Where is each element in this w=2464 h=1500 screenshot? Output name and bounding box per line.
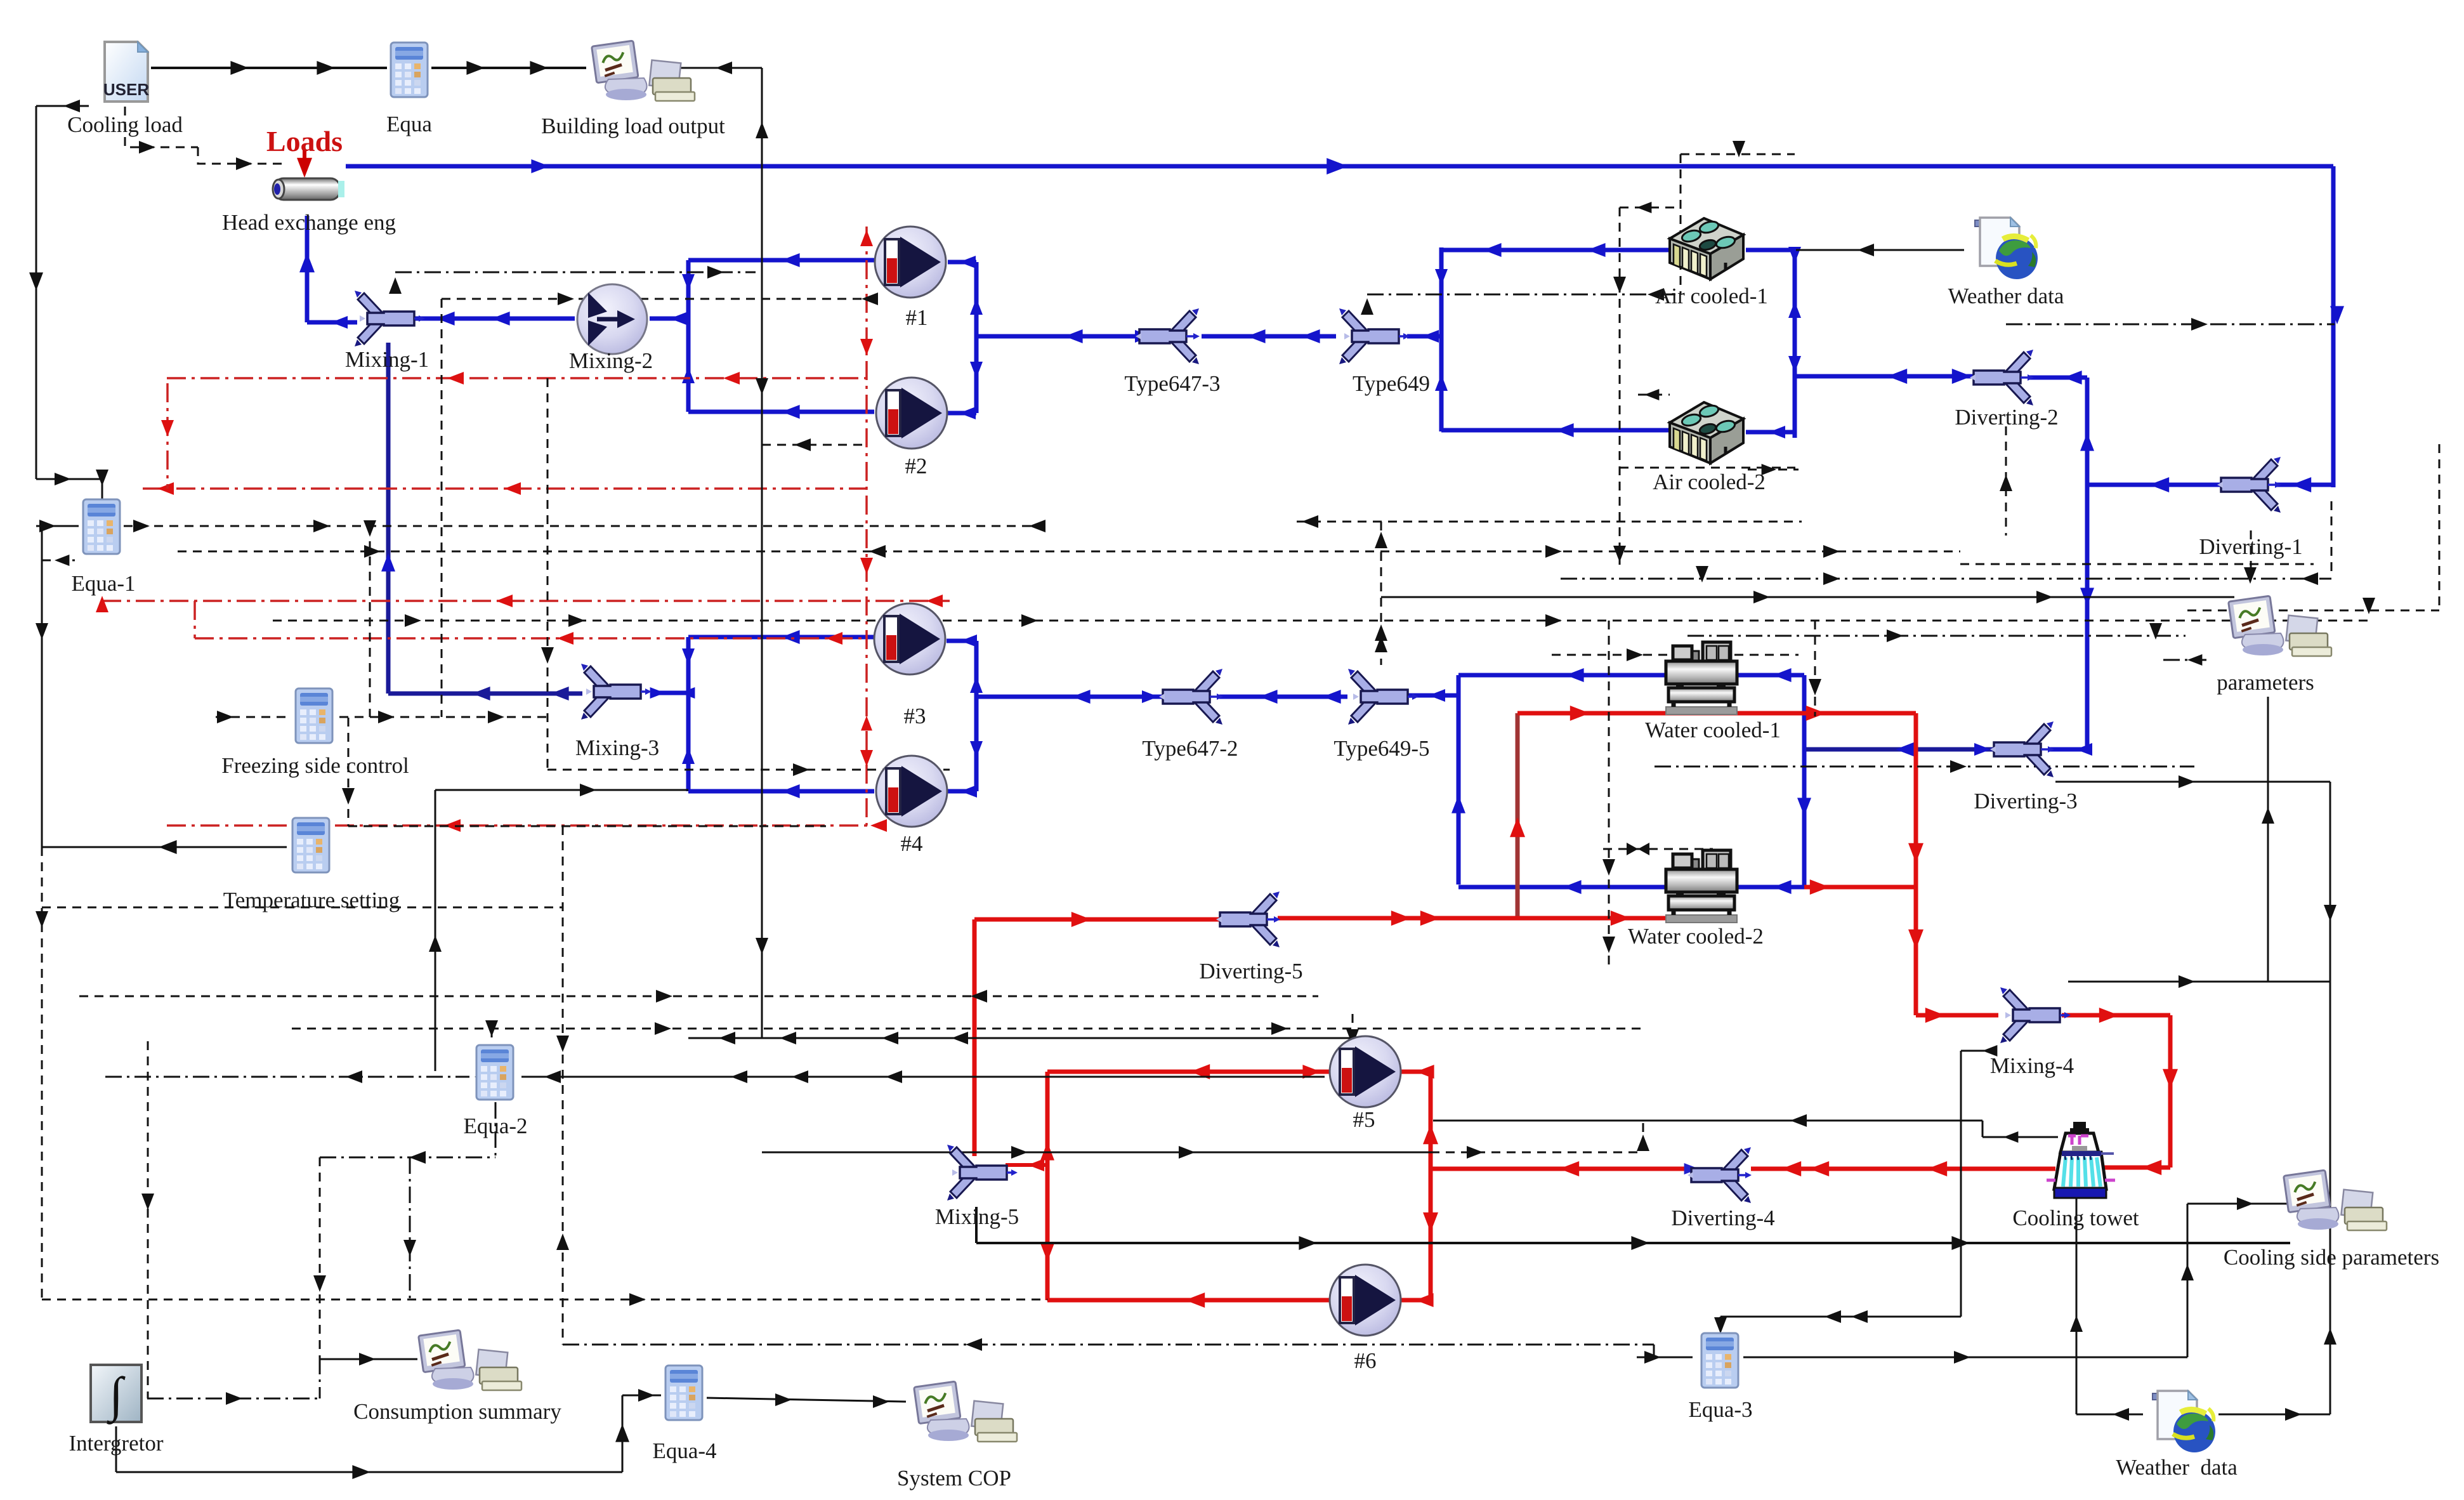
control: dash-dot Mixing-1 arm y429	[395, 272, 756, 273]
component: pump #2	[876, 378, 947, 449]
svg-text:Type649-5: Type649-5	[1334, 736, 1429, 761]
control: dashed vertical x504	[319, 1157, 321, 1358]
wire: suction riser x1085 upper (blue)	[686, 260, 691, 412]
wire: condenser supply from chillers (dark red riser x2392)	[1516, 713, 1520, 918]
wire: pump #4 suction run (blue)	[688, 789, 874, 794]
signal: tower fan hook	[1982, 1121, 1984, 1137]
signal: Mixing-4 top arm output	[2068, 981, 2330, 983]
svg-text:Type647-2: Type647-2	[1142, 736, 1238, 761]
component: Consumption summary (plotter)	[419, 1330, 521, 1390]
svg-text:Diverting-4: Diverting-4	[1671, 1206, 1774, 1230]
component: pump #3	[874, 603, 945, 674]
control: dash-dot row y912	[1561, 578, 2331, 580]
control: dashed y1032 mid	[1552, 654, 1799, 656]
wire: Type649 outlet stub (blue)	[1407, 334, 1441, 339]
component: Diverting-4 (diverter)	[1687, 1147, 1752, 1203]
svg-text:Diverting-5: Diverting-5	[1199, 959, 1302, 984]
component: Head exchange eng (pipe)	[273, 178, 344, 200]
signal: left rail top hook	[36, 105, 89, 107]
wire: pump #2 suction run (blue)	[688, 410, 874, 414]
control: dashed vertical x2536 lower	[1608, 621, 1610, 971]
wire: Diverting-5 header y1449 (red)	[974, 918, 1222, 922]
control: dashed WC valve stub with valve symbol	[1603, 848, 1713, 850]
control: dashed vertical x2861	[1814, 621, 1816, 716]
wire: condenser riser x3020 to Mixing-4 (red)	[1914, 713, 1918, 1015]
control: pump#5 top dashed stub	[1352, 1014, 1354, 1042]
svg-text:Temperature setting: Temperature setting	[223, 888, 400, 912]
signal: Equa to Building load output	[431, 67, 586, 69]
signal: Equa-4 to System COP	[707, 1398, 906, 1402]
svg-text:Air cooled-1: Air cooled-1	[1655, 284, 1768, 308]
wire: pump manifold riser x1539 lower (blue)	[974, 641, 979, 791]
wire: pump #6 right stub (red)	[1401, 1298, 1431, 1303]
svg-text:Water cooled-1: Water cooled-1	[1645, 718, 1781, 742]
control: dashed pump#6 bypass y1816-2590	[1431, 1152, 1643, 1154]
signal: Diverting-3 lower arm to right rail	[2055, 781, 2330, 783]
svg-text:Mixing-1: Mixing-1	[345, 347, 429, 372]
control: dashed vertical x863	[547, 378, 549, 770]
control: dashed Mixing-3 box bottom y1302	[348, 826, 826, 827]
wire: Mixing-1 to Mixing-2 run (blue)	[414, 317, 575, 321]
signal: Mixing-4 lower hook	[1961, 1050, 1991, 1052]
component: System COP (plotter)	[914, 1381, 1017, 1442]
component: Mixing-1 (tee valve)	[355, 291, 425, 346]
svg-text:#3: #3	[904, 704, 926, 728]
component: Diverting-2	[1970, 350, 2034, 405]
control: dashed hook at Equa-1 lower-left	[42, 560, 75, 562]
signal: weather data to air-cooled rail	[1796, 249, 1964, 251]
wire: right riser to Diverting-1 (blue)	[2331, 166, 2336, 487]
control: red dash-dot y947	[102, 600, 950, 602]
svg-text:Mixing-2: Mixing-2	[569, 348, 653, 373]
component: pump #4	[876, 756, 947, 827]
wire: water-cooled right riser x2844 (blue)	[1802, 675, 1807, 887]
svg-text:Loads: Loads	[266, 125, 343, 157]
wire: air-cooled left riser x2272 (blue)	[1439, 247, 1444, 431]
control: dashed vertical x696	[441, 299, 443, 717]
svg-text:Equa-3: Equa-3	[1688, 1397, 1752, 1422]
control: dash-dot y2119	[563, 1344, 1654, 1346]
control: long dashed y978	[273, 620, 2373, 622]
signal: parameters long input y941	[1381, 596, 2234, 598]
component: Cooling side parameters (plotter)	[2284, 1170, 2387, 1230]
component: Mixing-5 (mixer)	[947, 1145, 1018, 1201]
signal: Equa-1 top feed	[36, 478, 102, 480]
wire: condenser return red continuation y1398	[1804, 885, 1916, 890]
component: Type649 (mixer)	[1339, 308, 1410, 364]
signal: pump row to system y1766	[1433, 1120, 1982, 1122]
wire: Type647-3 to pump manifold (blue)	[976, 334, 1140, 339]
svg-text:Equa-1: Equa-1	[71, 571, 135, 596]
wire: discharge riser x1651 (red)	[1045, 1072, 1050, 1300]
svg-text:Cooling towet: Cooling towet	[2012, 1206, 2139, 1230]
component: Diverting-3	[1990, 721, 2054, 777]
svg-text:#2: #2	[905, 454, 927, 478]
control: Equa-2 bottom dash-dot to x504	[495, 1102, 497, 1157]
wire: Water cooled-2 return run (blue)	[1458, 885, 1804, 890]
component: Equa (calculator)	[391, 43, 428, 97]
control: red dash-dot riser x1366	[865, 227, 868, 826]
wire: pump #1 suction run (blue)	[688, 258, 874, 263]
control: dashed below Diverting-2 label	[2005, 426, 2007, 536]
component: pump #1	[875, 227, 946, 298]
signal: Equa-3 output to Cooling side parameters	[1743, 1357, 2187, 1359]
control: dashed air-cooled left stubs	[1620, 207, 1675, 209]
wire: Mixing-1 outlet to head exchanger (blue)	[307, 320, 357, 325]
component: pump #6	[1330, 1265, 1401, 1336]
control: red dash-dot vertical x307	[193, 601, 196, 638]
wire: Diverting-5 outlet to Water cooled-2 (red)	[1278, 916, 1668, 921]
control: red dash-dot y596	[167, 377, 867, 379]
control: Integrator dash-dot output	[147, 1398, 320, 1400]
wire: Mixing-1 lower port riser (navy)	[386, 343, 391, 694]
component: parameters (plotter)	[2229, 596, 2331, 656]
wire: Mixing-2 outlet to riser (blue)	[650, 317, 688, 321]
wire: condenser supply header y1124 (red)	[1517, 711, 1916, 716]
wire: pump #5/#6 suction riser x2255 (red)	[1429, 1072, 1433, 1300]
wire: pump #2 right stub (blue)	[948, 411, 976, 416]
svg-text:Type649: Type649	[1353, 371, 1430, 396]
control: dashed x3675 below corner	[2331, 501, 2333, 575]
wire: Diverting-1 left outlet to collector (blue)	[2087, 483, 2228, 487]
component: Mixing-3 (mixer)	[581, 664, 652, 720]
svg-text:Freezing side control: Freezing side control	[221, 753, 409, 778]
wire: pump #3 suction run (blue)	[688, 635, 874, 640]
control: dashed vertical x66	[41, 543, 43, 1299]
signal: Type649-5 top hook	[1380, 522, 1382, 665]
signal: parameters drop x3575	[2267, 697, 2269, 982]
control: dash-dot left of Equa-2 y1697	[105, 1076, 469, 1078]
wire: Air cooled-1 right stub (blue)	[1746, 248, 1795, 253]
wire: Type649-5 outlet stub (blue)	[1406, 694, 1458, 698]
svg-text:Diverting-2: Diverting-2	[1955, 405, 2058, 430]
control: red dash-dot y1006	[195, 637, 867, 640]
control: long dashed y869	[178, 551, 1960, 553]
signal: Cooling load to Equa	[151, 67, 387, 69]
signal: Equa-3 left input	[1637, 1357, 1693, 1359]
control: dashed box bottom air-cooled-2	[1620, 467, 1795, 469]
control: red dash-dot y770	[143, 487, 867, 490]
component: Intergretor (integrator)	[91, 1365, 141, 1424]
control: dashed diverting-1 drop	[2250, 530, 2252, 575]
component: Type647-3 (diverter)	[1136, 308, 1200, 364]
svg-text:System COP: System COP	[897, 1466, 1011, 1490]
wire: tower inlet run (red)	[2103, 1166, 2170, 1170]
svg-text:Intergretor: Intergretor	[69, 1431, 163, 1456]
control: Equa-1 right output dashed y829	[124, 525, 1040, 527]
control: dashed vertical x233	[147, 1041, 149, 1398]
signal: left rail x57	[36, 106, 37, 479]
wire: air-cooled right riser x2829 (blue)	[1793, 247, 1797, 438]
signal: Consumption summary input	[320, 1359, 417, 1360]
wire: pump #5 discharge run (red)	[1047, 1070, 1330, 1074]
signal: weather-data bottom right link	[2218, 1414, 2330, 1416]
wire: Air cooled-2 outlet run (blue)	[1441, 428, 1668, 433]
svg-text:Air cooled-2: Air cooled-2	[1653, 470, 1766, 494]
svg-text:Weather data: Weather data	[2116, 1455, 2238, 1480]
svg-text:Mixing-3: Mixing-3	[575, 735, 659, 760]
wire: Mixing-3 outlet stub (blue)	[653, 691, 688, 695]
control: dash-dot y1208	[1655, 766, 2194, 768]
svg-text:#5: #5	[1353, 1107, 1375, 1132]
component: Water cooled-1	[1666, 642, 1737, 714]
wire: pump #4 right stub (blue)	[947, 789, 976, 794]
signal: Integrator bottom bus	[115, 1426, 117, 1472]
wire: Mixing-4 inlet run (red)	[1916, 1013, 1998, 1018]
signal: weather-data bottom left link	[2076, 1414, 2143, 1416]
wire: pump #3 right stub (blue)	[947, 639, 976, 643]
wire: Diverting-1 inlet stub (blue)	[2276, 483, 2333, 487]
component: Type647-2 (diverter)	[1159, 669, 1223, 725]
component: Equa-3 (calculator)	[1701, 1333, 1738, 1388]
svg-text:Cooling side parameters: Cooling side parameters	[2224, 1245, 2439, 1270]
control: dashed vertical x549	[348, 718, 350, 826]
component: Water cooled-2	[1666, 850, 1737, 923]
component: Weather data (top)	[1975, 218, 2038, 279]
wire: collector riser x3290 (blue)	[2085, 378, 2090, 752]
wire: Type649 to Type647-3 run (blue)	[1202, 334, 1336, 339]
component: Building load output (plotter)	[592, 41, 695, 101]
svg-text:#1: #1	[906, 305, 928, 330]
svg-text:Weather data: Weather data	[1948, 284, 2064, 308]
svg-text:Diverting-3: Diverting-3	[1974, 789, 2077, 813]
signal: thin bus y1636	[688, 1037, 1353, 1039]
control: dashed y1570	[79, 996, 1318, 997]
wire: pump #6 discharge run (red)	[1047, 1298, 1332, 1303]
svg-text:Consumption summary: Consumption summary	[353, 1399, 561, 1424]
svg-text:Equa: Equa	[386, 112, 432, 136]
component: Mixing-2 (merge)	[577, 284, 647, 354]
component: Type649-5 (mixer)	[1348, 669, 1419, 725]
wire: main chilled-water supply header (blue)	[346, 164, 2333, 169]
signal: drop to Equa-2 x686	[435, 790, 436, 1071]
control: dashed air-cooled right stub y740	[1748, 469, 1799, 471]
component: Diverting-5	[1216, 891, 1280, 947]
wire: Air cooled-1 outlet run (blue)	[1441, 248, 1668, 253]
control: dashed y701	[762, 444, 867, 446]
signal: Equa-1 left input	[36, 525, 79, 527]
control: red dash-dot y1301	[167, 824, 873, 827]
wire: Diverting-3 inlet stub from collector (blue)	[2048, 747, 2087, 752]
control: dashed y471	[442, 298, 867, 300]
wire: Mixing-5 right stub (red)	[1006, 1163, 1047, 1167]
label: Loads red arrow	[303, 150, 306, 170]
control: dashed vertical x583	[369, 526, 371, 717]
wire: Mixing-4 outlet to tower riser (red)	[2062, 1013, 2170, 1018]
control: dashed parameters box right	[2187, 610, 2439, 612]
component: Mixing-4 (mixer)	[2000, 987, 2071, 1043]
wire: Mixing-5 top riser x1536 (red)	[973, 919, 977, 1156]
svg-text:Water cooled-2: Water cooled-2	[1628, 924, 1764, 949]
component: Freezing side control (calculator)	[296, 688, 332, 743]
wire: Water cooled-1 supply run (blue)	[1458, 673, 1804, 678]
control: dashed y1621 with Equa-2 drop	[292, 1028, 1643, 1030]
svg-text:Head exchange eng: Head exchange eng	[222, 210, 396, 235]
component: pump #5	[1330, 1036, 1401, 1107]
signal: Building load output drop x1201	[676, 67, 762, 69]
svg-text:Mixing-4: Mixing-4	[1990, 1053, 2074, 1078]
signal: Temperature setting output	[42, 846, 287, 848]
svg-text:Diverting-1: Diverting-1	[2199, 534, 2302, 559]
signal: freezing side link y1245	[435, 789, 688, 791]
control: dashed vertical x887	[562, 826, 564, 1345]
control: dashed y822 mid	[1297, 521, 1802, 523]
svg-text:Type647-3: Type647-3	[1124, 371, 1220, 396]
svg-text:parameters: parameters	[2217, 670, 2314, 695]
component: Weather data (bottom)	[2153, 1391, 2215, 1452]
svg-text:Cooling load: Cooling load	[67, 112, 183, 137]
wire: Mixing-3 to Mixing-1 return run (navy)	[388, 692, 582, 696]
signal: y1816 run	[762, 1152, 1431, 1154]
wire: Diverting-3 left outlet run (navy)	[1806, 747, 2000, 752]
signal: tower bottom riser x3273	[2076, 1198, 2078, 1414]
control: dashed y1213	[547, 769, 950, 771]
component: Equa-4 (calculator)	[665, 1365, 702, 1420]
component: Temperature setting (calculator)	[292, 818, 329, 872]
wire: tower outlet to Diverting-4 (red)	[1751, 1167, 2055, 1171]
wire: manifold to Type647-2 (blue)	[976, 695, 1163, 699]
wire: pump #5 right stub (red)	[1401, 1070, 1431, 1074]
wire: pump manifold riser x1539 upper (blue)	[974, 262, 979, 413]
control: dash-dot from Type649 top arm y464	[1367, 294, 1681, 296]
svg-text:Equa-2: Equa-2	[463, 1114, 527, 1138]
svg-text:Building load output: Building load output	[541, 114, 725, 138]
svg-text:#6: #6	[1354, 1348, 1377, 1373]
wire: suction riser x1085 lower (blue)	[686, 637, 691, 791]
control: dashed y889 right tail	[1960, 563, 2314, 565]
component: Equa-1 (calculator)	[83, 499, 120, 554]
wire: Type647-2 to Type649-5 (blue)	[1219, 695, 1347, 699]
svg-text:#4: #4	[901, 831, 923, 856]
wire: pump #1 right stub (blue)	[948, 260, 976, 265]
control: red dash-dot vertical x264	[166, 383, 169, 489]
control: dashed row y1430	[42, 907, 563, 909]
signal: left rail x66 lower	[41, 525, 43, 847]
wire: Air cooled-2 right stub (blue)	[1746, 430, 1795, 435]
component: Diverting-1	[2217, 457, 2281, 513]
component: Equa-2 (calculator)	[476, 1045, 513, 1100]
component: Cooling tower	[2047, 1122, 2115, 1198]
control: dashed box around air-cooled units	[1680, 154, 1682, 294]
wire: Diverting-2 right stub to collector (blue)	[2028, 376, 2087, 380]
wire: Diverting-4 left outlet to pump riser (red)	[1431, 1167, 1691, 1171]
control: dash-dot vertical x646	[409, 1157, 411, 1299]
signal: Equa-3 top feed y2075	[1720, 1316, 1961, 1318]
control: dash-dot Diverting-2 to right riser	[2006, 324, 2335, 326]
control: dashed vertical x2553	[1619, 207, 1621, 565]
component: Air cooled-2	[1670, 402, 1743, 463]
signal: Equa-2 right input bus y1697	[521, 1076, 1325, 1078]
component: Air cooled-1	[1670, 218, 1743, 279]
wire: Diverting-2 left outlet (blue)	[1795, 374, 1974, 379]
control: freezing-side dashed y1130	[216, 716, 289, 718]
control: Cooling load dashed drop	[125, 107, 198, 147]
control: dash-dot y1002 parameters feed	[1687, 635, 2185, 637]
svg-text:Mixing-5: Mixing-5	[935, 1204, 1019, 1229]
signal: long output bus y1959	[975, 1207, 978, 1243]
svg-text:Equa-4: Equa-4	[652, 1438, 716, 1463]
component: Cooling load (user file)	[103, 42, 149, 102]
control: big dashed y2048	[42, 1299, 1047, 1301]
wire: water-cooled left riser x2299 (blue)	[1457, 675, 1461, 885]
